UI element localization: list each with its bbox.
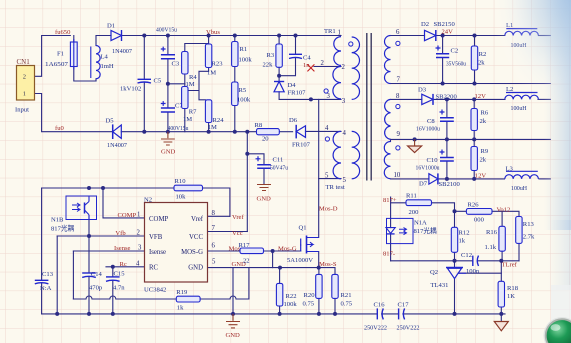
svg-text:Q1: Q1 bbox=[299, 225, 307, 232]
capacitor C2 bbox=[436, 46, 467, 68]
connector CN1 bbox=[15, 58, 35, 114]
svg-text:R17: R17 bbox=[239, 242, 251, 249]
svg-text:GND: GND bbox=[226, 332, 241, 339]
secondary winding 8-9 bbox=[385, 99, 391, 139]
ground GND under C7 bbox=[161, 132, 176, 156]
svg-text:1N4007: 1N4007 bbox=[107, 142, 128, 149]
svg-text:0.75: 0.75 bbox=[303, 301, 315, 308]
wire R4 top jog bbox=[185, 44, 209, 52]
wire C10 column bbox=[446, 139, 448, 179]
resistor R23 bbox=[205, 44, 223, 77]
wire R24 bottom bbox=[208, 123, 210, 132]
svg-text:1A6507: 1A6507 bbox=[45, 61, 69, 68]
svg-text:8: 8 bbox=[212, 210, 216, 217]
svg-text:4: 4 bbox=[136, 260, 140, 267]
svg-text:TR test: TR test bbox=[326, 184, 345, 191]
svg-text:2k: 2k bbox=[480, 118, 487, 125]
diode D2 SB2150 bbox=[421, 21, 455, 41]
svg-text:35V560u: 35V560u bbox=[446, 61, 467, 68]
junction (446.9,139.4) bbox=[445, 137, 449, 141]
svg-text:1: 1 bbox=[23, 91, 26, 98]
svg-text:1k: 1k bbox=[177, 305, 184, 312]
svg-text:16V1000u: 16V1000u bbox=[416, 126, 441, 133]
svg-text:VCC: VCC bbox=[189, 234, 203, 241]
wire transformer pin2 stub bbox=[314, 66, 341, 68]
wire CN1 pin2 to fuse bbox=[35, 36, 71, 77]
junction (295.5,35.5) bbox=[294, 34, 298, 38]
svg-text:Mos-S: Mos-S bbox=[319, 261, 337, 268]
junction (501.3,313.9) bbox=[499, 312, 503, 316]
svg-text:TLref: TLref bbox=[502, 262, 518, 269]
junction (208.6,35.5) bbox=[207, 34, 211, 38]
wire winding3 top stub bbox=[390, 139, 392, 141]
wire D1 cathode / 400V rail bbox=[122, 35, 342, 37]
svg-text:5: 5 bbox=[325, 173, 329, 180]
resistor R20 bbox=[303, 274, 323, 307]
svg-text:2k: 2k bbox=[478, 60, 485, 67]
wire C8 column bbox=[446, 99, 448, 139]
svg-text:L4: L4 bbox=[101, 54, 109, 61]
blue gradient top right corner bbox=[490, 0, 571, 120]
wire secondary pin10 to D7 bbox=[391, 178, 429, 180]
optocoupler N1A bbox=[386, 218, 437, 243]
diode D3 SB2200 bbox=[418, 86, 457, 105]
wire R17 to Q1 gate bbox=[264, 250, 301, 252]
diode D7 SB2100 bbox=[419, 173, 460, 188]
svg-text:SB2100: SB2100 bbox=[439, 181, 461, 188]
svg-text:250V222: 250V222 bbox=[397, 325, 420, 332]
capacitor C16 bbox=[364, 301, 387, 331]
primary winding 4-5 bbox=[333, 131, 341, 178]
svg-text:16V1000u: 16V1000u bbox=[416, 165, 441, 172]
svg-text:4: 4 bbox=[343, 130, 347, 137]
capacitor C14 bbox=[82, 271, 103, 292]
svg-text:1kV102: 1kV102 bbox=[120, 86, 141, 93]
svg-text:fu650: fu650 bbox=[55, 29, 71, 36]
wire R3 leads bbox=[278, 36, 280, 76]
junction (144.3,131.7) bbox=[142, 130, 146, 134]
svg-text:400V15u: 400V15u bbox=[168, 125, 190, 132]
wire Isense line bbox=[73, 250, 144, 252]
svg-text:D4: D4 bbox=[288, 82, 297, 89]
wire gnd stem right bbox=[500, 314, 502, 322]
svg-text:5: 5 bbox=[212, 259, 216, 266]
junction (234.8,35.5) bbox=[233, 34, 237, 38]
svg-text:GND: GND bbox=[188, 265, 203, 272]
optocoupler N1B bbox=[51, 196, 97, 233]
svg-text:C4: C4 bbox=[303, 55, 311, 62]
core bbox=[367, 33, 371, 181]
junction (247.3,131.7) bbox=[245, 130, 249, 134]
wire D6 to transformer pin4 bbox=[306, 130, 342, 132]
wire R13 bottom bbox=[518, 243, 520, 260]
capacitor C13 bbox=[35, 271, 54, 292]
junction (454.5,211.3) bbox=[453, 209, 457, 213]
wire C13 column bbox=[41, 188, 43, 314]
svg-text:C10: C10 bbox=[427, 157, 439, 164]
svg-text:SB2200: SB2200 bbox=[436, 93, 458, 100]
wire D5 cathode to C5 node bbox=[121, 131, 144, 133]
svg-text:FR107: FR107 bbox=[288, 90, 307, 97]
ground GND under C11 bbox=[257, 185, 272, 203]
junction (279.1,75.7) bbox=[277, 74, 281, 78]
svg-text:D5: D5 bbox=[106, 118, 115, 125]
svg-text:F1: F1 bbox=[57, 51, 64, 58]
wire L4 top to D1 bbox=[96, 36, 111, 82]
transistor Q1 MOSFET bbox=[287, 225, 319, 264]
svg-text:Vfb: Vfb bbox=[115, 230, 126, 237]
svg-text:Isense: Isense bbox=[114, 245, 131, 252]
svg-text:Vcc: Vcc bbox=[232, 230, 243, 237]
wire fuse bottom to L4 bottom bbox=[74, 36, 96, 82]
svg-text:100uH: 100uH bbox=[511, 185, 527, 192]
svg-text:7: 7 bbox=[212, 225, 216, 232]
svg-text:12V: 12V bbox=[475, 173, 487, 180]
junction (89,188) bbox=[87, 186, 91, 190]
svg-text:Isense: Isense bbox=[149, 249, 166, 256]
svg-text:1.1k: 1.1k bbox=[485, 244, 497, 251]
svg-text:2.7k: 2.7k bbox=[523, 233, 535, 240]
transformer TR1 bbox=[321, 28, 401, 191]
svg-text:7: 7 bbox=[397, 77, 401, 84]
junction (234.8,131.7) bbox=[233, 130, 237, 134]
junction (112.8,313.9) bbox=[111, 312, 115, 316]
wire R21 bottom bbox=[334, 298, 336, 314]
ground triangle secondary bbox=[494, 322, 508, 331]
wire R19 line with hops bbox=[73, 268, 249, 299]
svg-text:5A1000V: 5A1000V bbox=[287, 257, 313, 264]
svg-text:R6: R6 bbox=[481, 110, 489, 117]
resistor R22 bbox=[276, 283, 297, 308]
svg-text:C2: C2 bbox=[451, 48, 459, 55]
svg-text:000: 000 bbox=[474, 216, 485, 223]
svg-text:RC: RC bbox=[149, 265, 159, 272]
resistor R8 bbox=[255, 122, 280, 143]
svg-text:D7: D7 bbox=[419, 180, 428, 187]
wire R6 leads bbox=[473, 99, 475, 139]
junction (272.6,251) bbox=[271, 249, 275, 253]
svg-text:R19: R19 bbox=[176, 289, 188, 296]
diode D1 1N4007 bbox=[107, 23, 133, 56]
junction (247.3,153.8) bbox=[245, 152, 249, 156]
junction (103,188) bbox=[101, 186, 105, 190]
svg-text:C16: C16 bbox=[374, 301, 386, 308]
svg-text:C13: C13 bbox=[42, 271, 54, 278]
svg-text:0.75: 0.75 bbox=[341, 301, 353, 308]
resistor R11 bbox=[406, 193, 432, 216]
wire D7 to L3 bbox=[438, 178, 505, 180]
wire R9 leads bbox=[473, 139, 475, 179]
capacitor C3 bbox=[161, 47, 180, 68]
resistor R5 bbox=[232, 82, 251, 106]
svg-text:8: 8 bbox=[396, 93, 400, 100]
svg-text:2: 2 bbox=[137, 230, 141, 237]
capacitor C17 bbox=[397, 301, 420, 331]
wire Mos-D vertical bbox=[318, 99, 320, 237]
svg-text:817光耦: 817光耦 bbox=[414, 226, 437, 235]
wire R23 leads and jog bbox=[188, 36, 209, 100]
svg-text:5: 5 bbox=[343, 177, 347, 184]
svg-text:R4: R4 bbox=[189, 74, 197, 81]
resistor R1 bbox=[232, 42, 253, 67]
diode D6 FR107 bbox=[289, 117, 311, 149]
junction (310.9,99.4) bbox=[309, 97, 313, 101]
capacitor C11 bbox=[256, 156, 289, 171]
wire MOS-G pin to R17 bbox=[208, 250, 241, 252]
wire R10 right to Vref bbox=[203, 188, 230, 216]
svg-text:C17: C17 bbox=[398, 301, 410, 308]
junction (414.6,139.4) bbox=[413, 137, 417, 141]
svg-text:C15: C15 bbox=[114, 271, 126, 278]
svg-text:COMP: COMP bbox=[149, 216, 168, 223]
svg-text:4: 4 bbox=[325, 125, 329, 132]
svg-text:817+: 817+ bbox=[383, 197, 397, 204]
svg-text:R7: R7 bbox=[189, 109, 197, 116]
junction (318.7,267.6) bbox=[317, 266, 321, 270]
svg-text:22: 22 bbox=[243, 258, 250, 265]
junction (474.2,178.9) bbox=[472, 177, 476, 181]
svg-text:3: 3 bbox=[327, 93, 331, 100]
wire C5 column bbox=[143, 36, 145, 132]
junction (208.6,131.7) bbox=[207, 130, 211, 134]
junction (446.9,178.9) bbox=[445, 177, 449, 181]
junction (144.3,35.5) bbox=[142, 34, 146, 38]
svg-text:R16: R16 bbox=[486, 229, 498, 236]
capacitor C5 bbox=[120, 78, 162, 93]
svg-text:100n: 100n bbox=[466, 268, 480, 275]
junction (454.5,260.8) bbox=[453, 259, 457, 263]
svg-text:C3: C3 bbox=[172, 61, 180, 68]
svg-text:MOS-G: MOS-G bbox=[181, 249, 203, 256]
wire R2 leads bbox=[474, 36, 476, 84]
svg-text:817光耦: 817光耦 bbox=[51, 224, 74, 233]
wire R11 leads bbox=[391, 203, 455, 261]
svg-text:TL431: TL431 bbox=[431, 282, 449, 289]
inductor L3 bbox=[505, 165, 539, 192]
wire R18 leads bbox=[500, 261, 502, 314]
green ball bottom right bbox=[544, 317, 571, 343]
capacitor C12 bbox=[461, 252, 480, 275]
svg-text:R23: R23 bbox=[212, 61, 224, 68]
svg-text:Mos-D: Mos-D bbox=[319, 206, 338, 213]
inductor L4 bbox=[91, 46, 114, 79]
resistor R24 bbox=[205, 100, 224, 131]
wire secondary gnd bus2 bbox=[391, 138, 551, 140]
svg-text:817-: 817- bbox=[383, 251, 395, 258]
junction (454.5,313.9) bbox=[453, 312, 457, 316]
wire VFB line bbox=[57, 235, 144, 237]
wire COMP vertical bbox=[103, 188, 145, 218]
junction (442.6,83.5) bbox=[441, 82, 445, 86]
junction (57.2,313.9) bbox=[55, 312, 59, 316]
wire GND pin sense line bbox=[208, 267, 319, 269]
svg-text:2: 2 bbox=[23, 74, 26, 81]
svg-text:SB2150: SB2150 bbox=[434, 21, 456, 28]
wire TL431 ref bbox=[458, 272, 501, 274]
svg-text:1N4007: 1N4007 bbox=[112, 48, 133, 55]
svg-text:400V15u: 400V15u bbox=[156, 27, 178, 34]
wire C15 column bbox=[112, 267, 114, 314]
wire L2 to right edge bbox=[538, 98, 550, 100]
svg-text:R21: R21 bbox=[341, 292, 352, 299]
svg-text:470p: 470p bbox=[89, 285, 103, 292]
resistor R6 bbox=[471, 109, 489, 131]
wire Q1 drain source bbox=[301, 245, 319, 268]
resistor R4 bbox=[182, 52, 198, 88]
junction (501.3,260.8) bbox=[499, 259, 503, 263]
ground GND primary bus bbox=[226, 314, 241, 339]
svg-text:22k: 22k bbox=[263, 62, 274, 69]
wire R16 leads bbox=[501, 211, 503, 260]
svg-text:10k: 10k bbox=[176, 194, 187, 201]
junction (280,267.6) bbox=[278, 266, 282, 270]
primary winding 1-2-3 bbox=[333, 37, 341, 99]
wire Vcc vertical from aux bus bbox=[246, 132, 248, 232]
svg-text:C11: C11 bbox=[273, 157, 284, 164]
resistor R7 bbox=[182, 87, 197, 124]
svg-text:R13: R13 bbox=[523, 221, 535, 228]
blue band right edge bbox=[544, 0, 571, 230]
svg-text:D1: D1 bbox=[107, 23, 115, 30]
wire Vcc pin bbox=[208, 231, 248, 233]
inductor L1 bbox=[505, 22, 539, 49]
wire D2 to L1 bbox=[436, 35, 505, 37]
svg-text:C8: C8 bbox=[427, 118, 435, 125]
svg-text:N1B: N1B bbox=[51, 217, 64, 224]
svg-text:N:A: N:A bbox=[40, 285, 52, 292]
svg-text:12V: 12V bbox=[475, 93, 487, 100]
svg-text:24V: 24V bbox=[442, 29, 454, 36]
svg-text:100k: 100k bbox=[239, 57, 253, 64]
ground triangle on bus2 bbox=[408, 139, 422, 152]
svg-text:100k: 100k bbox=[237, 97, 251, 104]
svg-text:VFB: VFB bbox=[149, 234, 163, 241]
wire R20 leads bbox=[318, 268, 320, 314]
svg-text:2k: 2k bbox=[480, 157, 487, 164]
no-connect cross pin2 bbox=[307, 64, 314, 71]
junction (233,313.9) bbox=[231, 312, 235, 316]
svg-text:R22: R22 bbox=[286, 293, 297, 300]
junction (167.9,131.7) bbox=[166, 130, 170, 134]
resistor R2 bbox=[471, 46, 486, 70]
svg-text:1mH: 1mH bbox=[101, 63, 114, 70]
wire C4 branch bbox=[279, 36, 295, 82]
junction (112.8,266.8) bbox=[111, 265, 115, 269]
junction (335,313.9) bbox=[333, 312, 337, 316]
svg-text:100k: 100k bbox=[284, 301, 298, 308]
svg-text:1K: 1K bbox=[507, 293, 515, 300]
wire opto N1B top rail to R10 bbox=[42, 187, 174, 189]
wire gate branch down bbox=[272, 251, 274, 268]
svg-text:R1: R1 bbox=[240, 46, 248, 53]
wire R7 bottom to bus bbox=[184, 109, 186, 132]
svg-text:Input: Input bbox=[15, 107, 29, 114]
svg-text:D2: D2 bbox=[421, 21, 429, 28]
resistor R18 bbox=[498, 281, 519, 307]
svg-text:L3: L3 bbox=[506, 165, 514, 172]
svg-text:3: 3 bbox=[342, 98, 346, 105]
junction (167.9,35.5) bbox=[166, 34, 170, 38]
wire opto emitter / C14 column bbox=[88, 216, 90, 314]
svg-text:D6: D6 bbox=[289, 117, 298, 124]
capacitor C7 bbox=[161, 101, 184, 112]
wire low-voltage bus to R8 bbox=[144, 131, 256, 133]
wire R1 leads bbox=[234, 36, 236, 83]
svg-text:1: 1 bbox=[338, 30, 341, 37]
wire TLref line bbox=[391, 260, 519, 262]
wire D3 to L2 bbox=[433, 98, 505, 100]
transistor Q2 TL431 bbox=[430, 268, 466, 290]
svg-text:R20: R20 bbox=[304, 292, 316, 299]
wire C3 C7 column bbox=[167, 36, 169, 132]
svg-text:GND: GND bbox=[257, 196, 272, 203]
capacitor C8 bbox=[416, 110, 454, 133]
svg-text:1k: 1k bbox=[459, 238, 466, 245]
svg-text:R12: R12 bbox=[459, 230, 470, 237]
svg-text:R8: R8 bbox=[255, 122, 263, 129]
junction (474.2,99.4) bbox=[472, 97, 476, 101]
resistor R26 bbox=[466, 201, 492, 223]
wire C11 branch bbox=[247, 154, 264, 184]
svg-text:20: 20 bbox=[262, 136, 269, 143]
wire R8 to D6 bbox=[279, 131, 292, 133]
svg-text:C12: C12 bbox=[461, 252, 472, 259]
svg-text:6: 6 bbox=[212, 243, 216, 250]
capacitor C15 bbox=[106, 271, 125, 292]
svg-text:50V47u: 50V47u bbox=[270, 165, 289, 172]
svg-text:N2: N2 bbox=[144, 196, 152, 203]
wire 817 vertical N1A bbox=[390, 197, 392, 261]
junction (318.9,313.9) bbox=[317, 312, 321, 316]
svg-text:R24: R24 bbox=[213, 117, 225, 124]
svg-text:200: 200 bbox=[409, 209, 420, 216]
svg-text:4.7n: 4.7n bbox=[113, 285, 125, 292]
wire CN1 pin1 to D5 bbox=[35, 94, 113, 132]
svg-text:N1A: N1A bbox=[414, 219, 427, 226]
wire secondary pin6 rail bbox=[391, 35, 425, 37]
secondary winding 9-10 bbox=[384, 142, 390, 179]
svg-text:2: 2 bbox=[342, 64, 346, 71]
svg-text:3: 3 bbox=[138, 245, 142, 252]
fuse F1 bbox=[45, 39, 77, 70]
svg-text:Mos-G: Mos-G bbox=[278, 245, 297, 252]
wire C3C7 node to R4R7 node bbox=[168, 83, 185, 85]
resistor R3 bbox=[263, 44, 283, 69]
resistor R16 bbox=[485, 226, 506, 251]
svg-text:Q2: Q2 bbox=[430, 269, 438, 276]
svg-text:R2: R2 bbox=[479, 51, 487, 58]
wire primary ground bus bbox=[42, 313, 505, 315]
wire transformer pin5 bbox=[319, 178, 341, 180]
svg-text:R11: R11 bbox=[406, 193, 417, 200]
junction (279.6,313.9) bbox=[278, 312, 282, 316]
svg-text:R18: R18 bbox=[507, 285, 519, 292]
svg-text:R10: R10 bbox=[175, 178, 187, 185]
wire RC pin bbox=[106, 266, 145, 268]
svg-text:CN1: CN1 bbox=[17, 58, 31, 66]
resistor R19 bbox=[176, 289, 200, 311]
junction (474.5,83.5) bbox=[473, 82, 477, 86]
wire R5 bottom bbox=[234, 106, 236, 132]
svg-text:R5: R5 bbox=[239, 87, 247, 94]
svg-text:1M: 1M bbox=[207, 70, 216, 77]
wire VFB branch down bbox=[56, 236, 58, 314]
inductor L2 bbox=[505, 86, 539, 112]
wire secondary return bus1 bbox=[391, 83, 551, 85]
svg-text:fu0: fu0 bbox=[55, 125, 64, 132]
junction (474.2,139.4) bbox=[472, 137, 476, 141]
svg-text:6: 6 bbox=[396, 29, 400, 36]
